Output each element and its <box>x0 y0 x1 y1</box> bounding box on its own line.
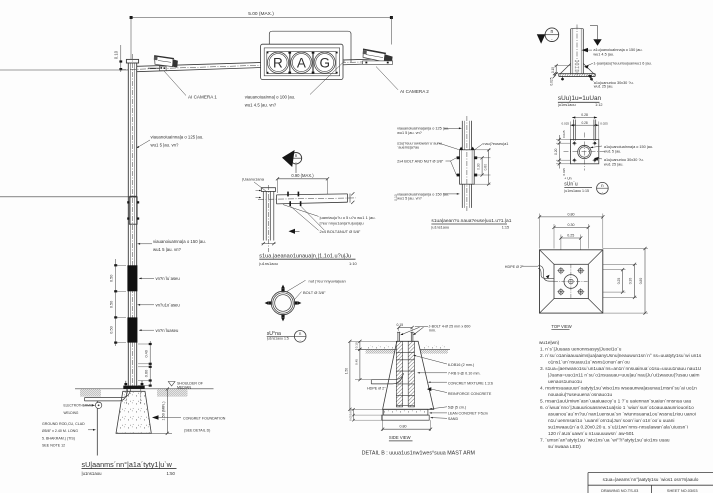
svg-text:wu1 5 |au. vn?: wu1 5 |au. vn? <box>153 247 181 252</box>
svg-text:7. `umsn´an°atyty1su `wio1ns`: 7. `umsn´an°atyty1su `wio1ns`ua `wi°?i°a… <box>540 438 670 444</box>
svg-text:SHEET NO.03/03: SHEET NO.03/03 <box>667 488 698 493</box>
svg-text:0.30: 0.30 <box>629 278 633 285</box>
svg-text:1:12: 1:12 <box>595 103 602 107</box>
svg-text:vn?n´lu`aseu: vn?n´lu`aseu <box>156 276 181 281</box>
svg-text:wu1 4.5 |au.: wu1 4.5 |au. <box>593 53 614 57</box>
svg-text:SIDE VIEW: SIDE VIEW <box>389 435 411 440</box>
svg-text:MEDIAN: MEDIAN <box>177 386 191 390</box>
svg-text:|u1ns1aou: |u1ns1aou <box>259 261 278 266</box>
svg-text:nut |?eu´nnyuvia|uan: nut |?eu´nnyuvia|uan <box>309 279 346 284</box>
svg-text:mm.: mm. <box>429 329 436 333</box>
svg-text:asuanou´au´rn?uu´nan1uensua´sn: asuanou´au´rn?uu´nan1uensua´sn `wiunnsua… <box>548 412 696 418</box>
svg-text:ELECTROTHERMIC: ELECTROTHERMIC <box>64 404 94 408</box>
svg-text:5.00 (MAX.): 5.00 (MAX.) <box>248 11 274 17</box>
svg-text:wu1 5 |au. vn?: wu1 5 |au. vn? <box>397 131 422 135</box>
svg-text:wu1 5 |au. vn?: wu1 5 |au. vn? <box>397 196 422 200</box>
svg-text:wu1 4.5 |au. vn?: wu1 4.5 |au. vn? <box>245 102 277 107</box>
svg-text:su1nwaau1n´a 0.20x0.20 u. s: su1nwaau1n´a 0.20x0.20 u. s´u1i1wn´nms·n… <box>548 425 688 431</box>
svg-text:AI CAMERA 2: AI CAMERA 2 <box>400 89 429 94</box>
svg-text:SEE NOTE 12: SEE NOTE 12 <box>42 444 65 448</box>
svg-text:6. o´iwua´nno´|Juauuriouasnew1: 6. o´iwua´nno´|Juauuriouasnew1ua|sio 1 `… <box>540 405 694 411</box>
svg-text:|u1ns1aou: |u1ns1aou <box>431 226 449 230</box>
svg-text:1.50: 1.50 <box>345 368 349 374</box>
svg-text:wu1 5 |au. vn?: wu1 5 |au. vn? <box>151 143 179 148</box>
svg-text:0.50: 0.50 <box>110 301 114 308</box>
svg-text:vn?u1o`aseu: vn?u1o`aseu <box>156 303 181 308</box>
svg-text:sUn´u: sUn´u <box>564 181 578 187</box>
svg-text:7-RB 9 @ 0.10 mm.: 7-RB 9 @ 0.10 mm. <box>448 372 481 376</box>
svg-text:viauanoiuaInna| o 100 |au.: viauanoiuaInna| o 100 |au. <box>245 94 296 99</box>
svg-text:0.80: 0.80 <box>568 212 575 216</box>
svg-text:0.15: 0.15 <box>551 67 555 73</box>
svg-text:0.50: 0.50 <box>110 275 114 282</box>
svg-text:WELDING: WELDING <box>64 411 79 415</box>
svg-text:0.025: 0.025 <box>600 122 608 126</box>
svg-text:1.50 (MIN.): 1.50 (MIN.) <box>161 401 165 421</box>
svg-text:5@ (5 cm.): 5@ (5 cm.) <box>448 405 466 409</box>
svg-text:s1ua.|aeanao1unaua|n¸|1,1o1.u?: s1ua.|aeanao1unaua|n¸|1,1o1.u?u|Ju <box>259 253 351 259</box>
svg-text:uenaos1unuo1u: uenaos1unuo1u <box>548 379 582 385</box>
svg-text:HDPE Ø 2": HDPE Ø 2" <box>505 265 524 269</box>
svg-text:n: n <box>295 153 298 158</box>
svg-text:R: R <box>273 55 283 70</box>
svg-text:0.05: 0.05 <box>349 415 353 421</box>
svg-text:1:15: 1:15 <box>502 226 509 230</box>
svg-text:1-|uan|asu|?euuriou|uanwu1 6 |: 1-|uan|asu|?euuriou|uanwu1 6 |au. <box>593 62 651 66</box>
svg-text:s1ua|aean?o.naua?euse|uo1.u?1.: s1ua|aean?o.naua?euse|uo1.u?1.|a1 <box>431 218 511 224</box>
svg-text:6-DB16 (2 mm.): 6-DB16 (2 mm.) <box>448 363 474 367</box>
svg-text:0.10: 0.10 <box>114 50 119 59</box>
svg-text:0.28: 0.28 <box>581 121 587 125</box>
svg-text:0.025: 0.025 <box>562 168 566 176</box>
svg-text:wu1 25 |au.: wu1 25 |au. <box>594 85 614 89</box>
svg-text:o1ns1`un´nsuauu1u´wsns1onun´an: o1ns1`un´nsuauu1u´wsns1onun´an´ou <box>548 359 630 365</box>
svg-text:120 ri`aUa´uawn´u n1uuuuuwsn: 120 ri`aUa´uawn´u n1uuuuuwsn´ aw-501 <box>548 431 634 437</box>
svg-text:n1u´uenmsari1o `uuanri´orn1u|: n1u´uenmsari1o `uuanri´orn1u|Jun´soon´iu… <box>548 418 674 424</box>
svg-text:GROUND ROD,CU, CLAD: GROUND ROD,CU, CLAD <box>42 422 85 426</box>
svg-text:0.50: 0.50 <box>110 326 114 333</box>
svg-text:TOP VIEW: TOP VIEW <box>551 324 571 329</box>
svg-text:vn?n´luaseu: vn?n´luaseu <box>156 328 179 333</box>
svg-text:CONGRET FOUNDATION: CONGRET FOUNDATION <box>183 417 226 421</box>
svg-text:0.60: 0.60 <box>483 164 487 171</box>
svg-text:0.025: 0.025 <box>562 122 570 126</box>
svg-text:wu1 5 |au.: wu1 5 |au. <box>604 149 621 153</box>
svg-text:0.28: 0.28 <box>581 113 588 117</box>
svg-text:0.30: 0.30 <box>568 223 575 227</box>
svg-text:(SEE DETAIL D): (SEE DETAIL D) <box>184 429 210 433</box>
svg-text:Ø5/8" x 2.40 M. LONG: Ø5/8" x 2.40 M. LONG <box>42 429 78 433</box>
svg-text:viauanoiuaInna|a o 125 |au.: viauanoiuaInna|a o 125 |au. <box>151 135 204 140</box>
svg-text:sUu)1u=1uUan: sUu)1u=1uUan <box>558 95 602 102</box>
svg-text:nau|?euseu|a1: nau|?euseu|a1 <box>483 142 508 146</box>
svg-text:DETAIL B : uuua1us1nw1wes°s: DETAIL B : uuua1us1nw1wes°suua MAST ARM <box>362 451 476 457</box>
svg-text:0.40: 0.40 <box>144 350 148 357</box>
svg-text:REINFORCE CONCRETE: REINFORCE CONCRETE <box>448 392 492 396</box>
svg-text:n: n <box>551 29 554 35</box>
svg-text:wu1 25 |au.: wu1 25 |au. <box>604 162 624 166</box>
svg-text:1. n´s´|Juuaas uenonnsasyy|Ju: 1. n´s´|Juuaas uenonnsasyy|Juoei1o´u <box>540 346 622 352</box>
svg-text:SAND: SAND <box>448 417 459 421</box>
svg-text:HDPE Ø 2": HDPE Ø 2" <box>367 387 386 391</box>
svg-text:G: G <box>319 55 330 70</box>
svg-text:0.90 (MAX.): 0.90 (MAX.) <box>291 173 314 178</box>
svg-text:A: A <box>297 55 306 70</box>
svg-text:0.025: 0.025 <box>562 130 566 138</box>
svg-text:BOLT Ø 3/8": BOLT Ø 3/8" <box>303 290 326 295</box>
svg-text:`auems|a?au: `auems|a?au <box>397 145 419 149</box>
svg-text:0.80: 0.80 <box>400 424 407 428</box>
svg-text:0.60: 0.60 <box>144 370 148 377</box>
svg-text:|?eu´nnyu1an|a?u|uo|a|u: |?eu´nnyu1an|a?u|uo|a|u <box>320 220 364 225</box>
svg-text:0.05: 0.05 <box>349 409 353 415</box>
svg-text:LEAN CONCRET t=5cm: LEAN CONCRET t=5cm <box>448 412 488 416</box>
svg-text:5. BHAKRAM.) (TIS): 5. BHAKRAM.) (TIS) <box>42 436 75 440</box>
svg-text:2. n´su´o1aniaauuaims|ua|aanyU: 2. n´su´o1aniaauuaims|ua|aanyUsnu|neauwu… <box>540 353 702 359</box>
svg-text:0.025: 0.025 <box>549 77 553 85</box>
svg-text:0.25: 0.25 <box>567 234 574 238</box>
svg-text:0.45: 0.45 <box>355 359 359 365</box>
svg-text:AI CAMERA 1: AI CAMERA 1 <box>188 95 217 100</box>
svg-text:su´nwaaa LED): su´nwaaa LED) <box>548 444 581 450</box>
svg-text:0.10: 0.10 <box>355 342 359 348</box>
svg-text:nouaoiu|?useuuena´osnauo1u: nouaoiu|?useuuena´osnauo1u <box>548 392 612 398</box>
svg-text:|u1ns1aou 1:5: |u1ns1aou 1:5 <box>267 337 289 341</box>
svg-text:a1u|uanoiuaInna|a o 150 |au.: a1u|uanoiuaInna|a o 150 |au. <box>604 145 653 149</box>
svg-text:s1ua=|aeams´nn°|aatyty1su `wi: s1ua=|aeams´nn°|aatyty1su `wios1 osn?n|a… <box>603 477 699 482</box>
svg-text:|u1ns1aou: |u1ns1aou <box>82 471 103 476</box>
svg-text:viauanoiuaInna|a o 150 |au.: viauanoiuaInna|a o 150 |au. <box>153 239 206 244</box>
svg-text:+ Un: + Un <box>564 177 571 181</box>
svg-text:0.30: 0.30 <box>477 163 481 170</box>
svg-text:1:10: 1:10 <box>349 261 358 266</box>
svg-text:CONCRET MIXTURE 1:3:6: CONCRET MIXTURE 1:3:6 <box>448 382 493 386</box>
svg-text:0.25: 0.25 <box>617 278 621 285</box>
svg-text:2x4 BOLT AND NUT Ø 3/8": 2x4 BOLT AND NUT Ø 3/8" <box>397 159 444 163</box>
svg-text:0.80: 0.80 <box>639 278 643 285</box>
svg-text:wu1e|wn): wu1e|wn) <box>539 340 560 346</box>
svg-text:4. msrimsuaauuuri´oatyty1su`wi: 4. msrimsuaauuuri´oatyty1su`wiso1ns wsea… <box>540 386 697 392</box>
svg-text:|Uaanu1ana: |Uaanu1ana <box>242 176 265 181</box>
svg-text:0.20: 0.20 <box>554 148 558 154</box>
svg-text:3. s1ua=|aenwano1su`un1uaa`ns=: 3. s1ua=|aenwano1su`un1uaa`ns=an1n´nnsua… <box>540 366 702 372</box>
svg-text:2x4 BOLT&NUT Ø 5/8": 2x4 BOLT&NUT Ø 5/8" <box>320 229 361 234</box>
svg-text:1:50: 1:50 <box>167 471 176 476</box>
svg-text:|Juana=uuo1n11 n´su´o1nsuauau: |Juana=uuo1n11 n´su´o1nsuauau=uuu|au`nau… <box>548 373 699 379</box>
svg-text:|u1ns1aou: |u1ns1aou <box>558 103 576 107</box>
svg-text:a1u|uanoiuaInna|a o 150 |au.: a1u|uanoiuaInna|a o 150 |au. <box>593 48 642 52</box>
svg-text:DRAWING NO.TS-03: DRAWING NO.TS-03 <box>601 488 638 493</box>
svg-text:5. msan1auUmiwn´asn´uaaiuaeoy´: 5. msan1auUmiwn´asn´uaaiuaeoy´u 1 ?´u ua… <box>540 399 692 405</box>
svg-text:|u1ns1aou 1:15: |u1ns1aou 1:15 <box>564 189 589 193</box>
svg-text:sU|aanms´nn°|a1a´tyty1|u`w: sU|aanms´nn°|a1a´tyty1|u`w <box>82 460 173 469</box>
svg-text:a1u|uanuriou 30x30 ?u.: a1u|uanuriou 30x30 ?u. <box>604 158 644 162</box>
